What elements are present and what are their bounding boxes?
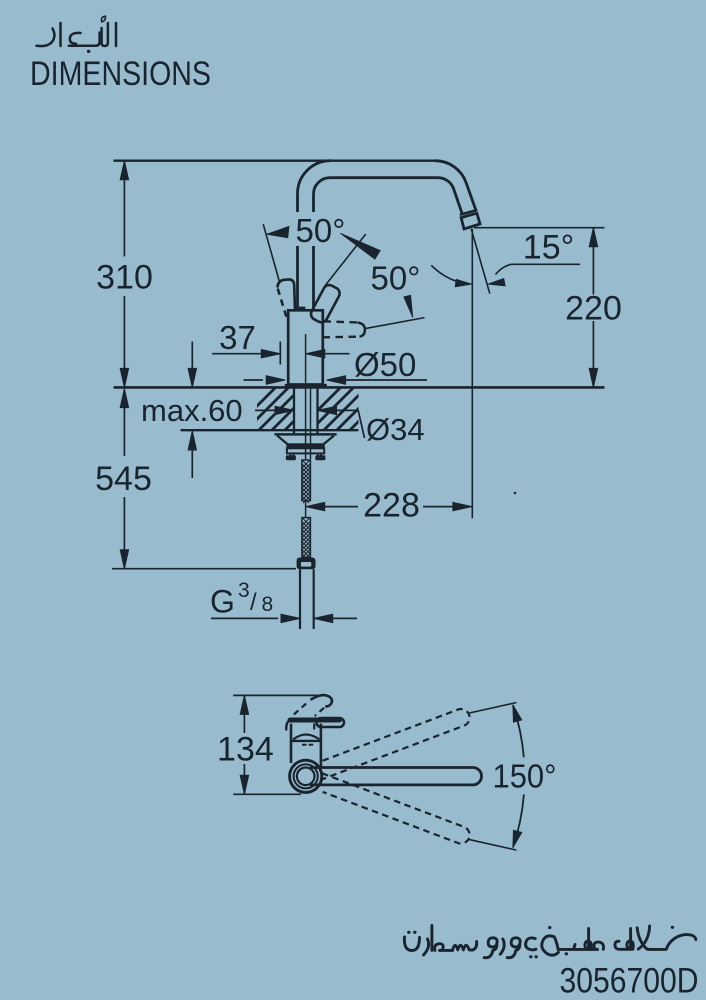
lever handle up-left position (partially dashed) <box>278 279 296 310</box>
svg-text:8: 8 <box>262 593 274 616</box>
svg-text:150°: 150° <box>493 758 557 795</box>
shank through deck <box>293 387 295 433</box>
body top tick <box>299 307 305 311</box>
braided hose upper <box>302 460 311 503</box>
svg-text:310: 310 <box>96 258 153 296</box>
label 50° right leader arrow <box>431 265 456 281</box>
vertical reference line from tip <box>471 229 473 519</box>
angle rays 150 <box>468 703 517 714</box>
center line <box>305 334 307 460</box>
mounting nut black bar <box>286 443 324 448</box>
cartridge dome <box>293 735 319 740</box>
svg-text:15°: 15° <box>523 229 574 267</box>
dimension G3/8 <box>211 617 278 619</box>
stray dot <box>514 492 517 495</box>
angle arc 150 <box>513 705 524 757</box>
spout tube side <box>310 768 482 785</box>
spout inner line <box>330 178 462 215</box>
label 15° leader <box>511 263 580 265</box>
riser pipe left line with corner <box>298 161 331 194</box>
svg-text:/: / <box>250 589 257 616</box>
word خلاط <box>615 929 633 950</box>
title arabic "الأبعاد" <box>37 16 117 51</box>
dimension 37 row <box>212 353 262 355</box>
studs and feet <box>290 453 292 456</box>
mounting nut body <box>287 448 324 453</box>
angle 50 left ray <box>263 224 280 283</box>
word مطبخ <box>578 942 604 949</box>
svg-text:37: 37 <box>219 319 256 356</box>
svg-text:50°: 50° <box>296 212 346 249</box>
lever axis thin line <box>365 318 425 329</box>
word سمارت <box>404 937 419 951</box>
dashed swivel tube upper <box>316 707 472 780</box>
svg-text:228: 228 <box>363 486 420 524</box>
left dashed arc <box>286 720 290 731</box>
svg-text:Ø34: Ø34 <box>366 412 425 447</box>
countertop deck line <box>114 386 605 389</box>
dimension 545 <box>120 389 128 408</box>
svg-text:220: 220 <box>565 290 622 328</box>
dimension 310 <box>123 161 125 257</box>
raised handle dashed <box>294 701 310 715</box>
spout outer corner curve <box>435 161 476 212</box>
angle 50 second down arrow <box>404 295 413 317</box>
faucet body <box>288 310 323 384</box>
deck bottom line <box>181 429 359 431</box>
ain upper curve <box>70 33 81 44</box>
G3/8 pipe <box>299 569 301 629</box>
dimension max.60 <box>191 342 193 374</box>
riser pipe right line with corner <box>314 178 331 195</box>
aerator tip <box>461 213 480 229</box>
handle grip capsule <box>317 718 345 727</box>
label G 3/8 <box>210 579 273 620</box>
svg-text:3: 3 <box>238 579 250 602</box>
lever handle horizontal dashed position <box>323 321 365 337</box>
svg-text:134: 134 <box>217 730 274 768</box>
alif <box>115 23 118 46</box>
side body <box>290 724 293 763</box>
lam-alif with hamza <box>102 23 108 46</box>
svg-text:Ø50: Ø50 <box>354 346 416 383</box>
angle 50 right ray <box>325 234 366 286</box>
footer arabic "خلاط مطبخ يورو سمارت" <box>404 926 695 958</box>
aerator band <box>460 210 476 214</box>
braided hose lower <box>302 518 311 561</box>
dimension Ø50 row (body width) <box>244 379 264 381</box>
spout pivot rings <box>290 760 322 792</box>
hose connector nut <box>297 558 316 570</box>
word يورو <box>484 938 497 958</box>
dimension 220 <box>474 227 605 229</box>
beh + ain baseline <box>69 33 100 46</box>
svg-text:545: 545 <box>95 460 152 498</box>
svg-text:max.60: max.60 <box>141 393 243 428</box>
countertop hatching <box>230 387 406 433</box>
svg-text:G: G <box>210 584 235 620</box>
alif <box>59 23 62 46</box>
svg-text:50°: 50° <box>371 260 421 297</box>
bottom extension line <box>112 568 296 570</box>
lever handle solid up-right position <box>278 279 342 324</box>
label Ø34 leader <box>275 406 294 414</box>
wire top extension line + spout top outer line <box>114 159 436 161</box>
dimension 134 <box>233 694 326 696</box>
svg-text:3056700D: 3056700D <box>560 962 699 1000</box>
svg-text:DIMENSIONS: DIMENSIONS <box>30 55 211 93</box>
side faucet handle cap bar <box>290 718 340 723</box>
mounting washer <box>275 433 337 436</box>
angle 50 right arc arrow <box>340 233 380 259</box>
angle 50 left arc arrow <box>267 226 289 238</box>
dimension 228 <box>306 502 325 510</box>
15 degree tilted line <box>471 229 490 294</box>
dal <box>37 29 55 47</box>
dashed swivel tube lower <box>316 773 472 846</box>
